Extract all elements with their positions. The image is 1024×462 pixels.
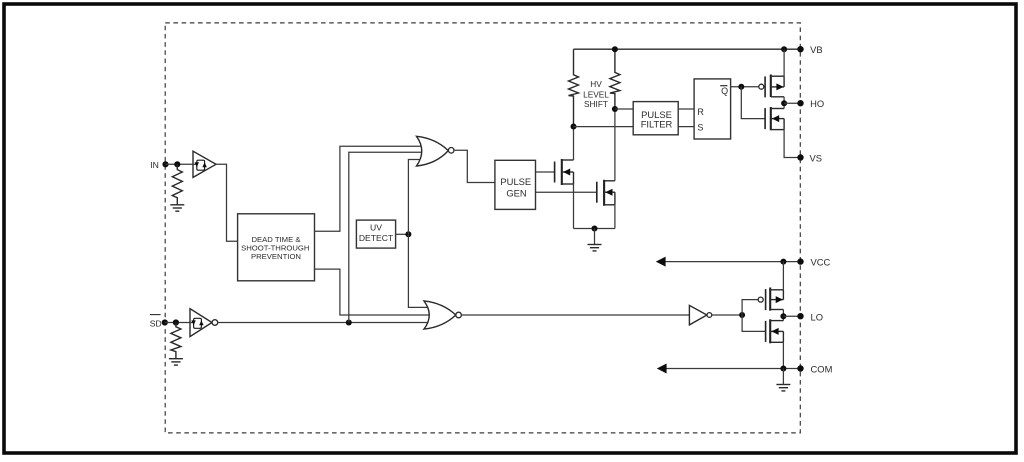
svg-text:VB: VB xyxy=(810,44,823,55)
junction rail/PMOS source xyxy=(781,46,787,52)
wire gate node up to low PMOS gate xyxy=(742,300,758,315)
svg-text:Q: Q xyxy=(721,86,728,96)
arrow VCC xyxy=(656,257,666,267)
schmitt inverter SD xyxy=(190,309,218,337)
svg-text:R: R xyxy=(697,107,704,117)
svg-text:VCC: VCC xyxy=(811,257,831,268)
wire SD stub xyxy=(165,322,191,324)
junction HO node xyxy=(781,100,787,106)
wire COM line with arrow xyxy=(664,368,801,370)
junction VCC/low PMOS source xyxy=(780,259,786,265)
wire low NMOS source to COM xyxy=(782,342,784,368)
svg-text:HO: HO xyxy=(810,98,824,109)
wire M2 source down to gnd rail xyxy=(614,205,616,229)
transistor low-side NMOS xyxy=(766,319,784,343)
block PULSE FILTER xyxy=(633,102,678,135)
resistor R2 (HV level shift right) xyxy=(610,49,620,109)
wire COM gnd stem xyxy=(782,369,784,385)
pin SD dot xyxy=(162,319,168,325)
svg-text:DETECT: DETECT xyxy=(359,233,394,243)
wire UV branch up to top NOR input 3 xyxy=(408,160,424,235)
junction rail/R2 xyxy=(612,46,618,52)
pin LO xyxy=(797,313,803,319)
transistor low-side PMOS xyxy=(758,288,783,311)
pin IN dot xyxy=(162,161,168,167)
wire UV branch down to bottom NOR input 1 xyxy=(408,234,429,307)
wire high PMOS drain to HO node xyxy=(783,97,785,103)
wire high PMOS source to VB rail xyxy=(783,49,785,76)
wire SD branch up to top NOR input 2 xyxy=(349,152,424,322)
junction IN/resistor xyxy=(174,161,180,167)
block DEAD TIME & SHOOT-THROUGH PREVENTION xyxy=(238,214,315,281)
wire IN stub xyxy=(166,163,194,165)
svg-text:S: S xyxy=(697,123,703,133)
svg-text:PULSE: PULSE xyxy=(500,176,531,187)
svg-text:LO: LO xyxy=(811,311,824,322)
svg-text:SD: SD xyxy=(150,319,162,329)
svg-text:COM: COM xyxy=(811,364,833,375)
pin COM xyxy=(797,365,803,371)
svg-text:HV: HV xyxy=(590,79,602,89)
svg-text:IN: IN xyxy=(150,160,159,170)
wire R1 tap to pulse filter S input xyxy=(574,126,634,128)
gate NOR high-side (3-input) xyxy=(417,136,455,166)
junction R1 tap xyxy=(571,124,577,130)
wire latch out down to high NMOS gate xyxy=(741,87,765,119)
wire dead-time upper out to top NOR input 1 xyxy=(315,146,425,231)
wire high NMOS drain to HO node xyxy=(783,103,785,108)
junction SD/resistor xyxy=(173,319,179,325)
wire gnd rail xyxy=(574,228,615,230)
svg-text:FILTER: FILTER xyxy=(641,119,673,130)
svg-text:VS: VS xyxy=(810,153,823,164)
transistor M2 (level-shift NMOS, reset) xyxy=(597,180,615,206)
wire top NOR out to pulse gen xyxy=(454,150,495,182)
wire IN buffer out to dead-time box xyxy=(216,164,238,241)
wire low PMOS drain to LO node xyxy=(782,310,784,317)
wire gate node down to low NMOS gate xyxy=(742,315,766,331)
wire VCC line with arrow xyxy=(663,261,801,263)
block UV DETECT xyxy=(356,220,395,248)
resistor R1 (HV level shift left) xyxy=(569,49,579,126)
pin VB xyxy=(797,46,803,52)
wire pulse gen upper out to M1 gate xyxy=(536,171,555,173)
wire inverter out to gate node xyxy=(712,314,742,316)
wire M1 source down to gnd rail xyxy=(573,184,575,229)
wire gnd stem xyxy=(594,229,596,245)
wire low PMOS source to VCC xyxy=(782,262,784,290)
wire HO node to pin xyxy=(784,102,800,104)
wire pulse filter to latch S xyxy=(678,126,694,128)
junction SD branch xyxy=(346,320,352,326)
junction LO node xyxy=(780,313,786,319)
svg-text:PREVENTION: PREVENTION xyxy=(251,252,301,261)
svg-text:SHIFT: SHIFT xyxy=(584,99,608,109)
pin HO xyxy=(797,100,803,106)
wire LO node to pin xyxy=(783,315,800,317)
ground SD xyxy=(169,359,183,365)
IC boundary dashed box xyxy=(165,23,800,433)
junction UV branch xyxy=(405,231,411,237)
inverter LO driver xyxy=(689,305,711,325)
wire low NMOS drain to LO node xyxy=(782,316,784,320)
latch RS (R S Qbar) xyxy=(694,79,731,139)
transistor high-side PMOS xyxy=(759,75,784,98)
wire latch Q out xyxy=(731,86,759,88)
wire pulse filter to latch R xyxy=(678,108,694,110)
schmitt buffer IN xyxy=(193,151,216,177)
wire dead-time lower out to bottom NOR input 2 xyxy=(315,269,430,315)
ground IN xyxy=(170,205,184,211)
junction low driver gate node xyxy=(739,312,745,318)
ground VSS (level shifter) xyxy=(588,245,602,251)
wire VB top rail xyxy=(574,48,801,50)
transistor high-side NMOS xyxy=(765,107,784,130)
svg-text:GEN: GEN xyxy=(506,187,526,198)
pin VS xyxy=(797,154,803,160)
junction R2 tap xyxy=(612,106,618,112)
junction latch out branch xyxy=(738,84,744,90)
wire M2 drain up to R2 xyxy=(614,109,616,181)
transistor M1 (level-shift NMOS, set) xyxy=(555,159,574,185)
wire high NMOS source to VS xyxy=(784,130,800,158)
wire UV detect out xyxy=(396,233,409,235)
wire pulse gen lower out to M2 gate xyxy=(536,191,597,193)
wire SD line to bottom NOR xyxy=(218,322,429,324)
junction COM/source xyxy=(780,366,786,372)
wire M1 drain up to R1 xyxy=(573,127,575,161)
wire R2 tap to pulse filter R input xyxy=(615,108,633,110)
svg-text:UV: UV xyxy=(370,222,382,232)
junction gnd rail xyxy=(592,226,598,232)
resistor IN pulldown xyxy=(172,164,182,204)
ground COM xyxy=(776,385,790,391)
label HV LEVEL SHIFT xyxy=(583,79,609,109)
pin VCC xyxy=(797,258,803,264)
resistor SD pulldown xyxy=(171,323,181,359)
arrow COM xyxy=(657,364,667,374)
wire bottom NOR out to inverter xyxy=(461,314,689,316)
gate NOR low-side (3-input) xyxy=(424,301,461,329)
block PULSE GEN xyxy=(495,160,536,209)
